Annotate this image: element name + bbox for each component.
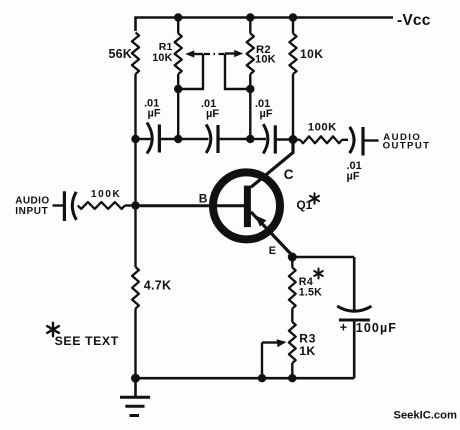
wire R1 bottom lead to RC line — [177, 74, 179, 139]
svg-text:4.7K: 4.7K — [144, 278, 172, 292]
svg-text:10K: 10K — [255, 54, 276, 66]
node RC line at 56K — [131, 135, 139, 143]
svg-text:SeekIC.com: SeekIC.com — [394, 410, 457, 422]
wire R1 wiper to bottom terminal — [178, 54, 203, 89]
potentiometer R3 1K body — [289, 322, 296, 363]
node R3 bottom on ground rail — [288, 374, 296, 382]
capacitor input coupling — [53, 191, 77, 221]
svg-text:56K: 56K — [109, 47, 133, 61]
wire R2 bottom lead to RC line — [249, 74, 251, 139]
resistor 100K output — [293, 136, 348, 143]
node R3 wiper on ground rail — [258, 374, 266, 382]
label AUDIO OUTPUT — [383, 132, 431, 152]
svg-text:µF: µF — [260, 108, 273, 120]
svg-text:µF: µF — [148, 108, 161, 120]
wire 4.7K to ground rail — [134, 309, 136, 379]
wire input junction down to 4.7K — [134, 206, 136, 268]
node RC line at R1 — [174, 135, 182, 143]
wire 10K top lead — [292, 18, 294, 34]
svg-text:B: B — [199, 192, 208, 206]
capacitor .01uF third phase-shift cap — [250, 124, 293, 153]
capacitor .01uF first phase-shift cap — [136, 123, 179, 154]
resistor 4.7K — [132, 267, 139, 309]
node input junction — [131, 201, 139, 209]
label .01uF first cap — [144, 98, 161, 120]
R1 wiper arrow — [185, 50, 203, 57]
wire emitter node down to R4 — [291, 257, 293, 268]
node emitter junction — [288, 253, 297, 262]
transistor Q1 circle — [213, 172, 280, 239]
R3 wiper arrow — [262, 339, 287, 347]
svg-text:OUTPUT: OUTPUT — [383, 140, 431, 151]
svg-text:-Vcc: -Vcc — [397, 12, 431, 29]
svg-text:SEE TEXT: SEE TEXT — [55, 334, 119, 348]
svg-text:µF: µF — [347, 171, 360, 183]
capacitor 100uF electrolytic — [337, 306, 371, 378]
svg-text:100µF: 100µF — [356, 321, 397, 335]
wire R1 top lead — [177, 18, 179, 34]
node R1 top on rail — [174, 13, 182, 21]
wire bottom ground rail — [136, 377, 355, 380]
wire 10K bottom lead to collector node — [292, 74, 294, 139]
wire R2 wiper to bottom terminal — [225, 54, 250, 90]
transistor Q1 collector lead — [251, 141, 293, 187]
node RC line at R2 — [246, 135, 254, 143]
svg-text:100K: 100K — [308, 121, 337, 133]
asterisk see-text note — [52, 323, 54, 337]
svg-text:10K: 10K — [300, 47, 324, 61]
node R2 top on rail — [246, 13, 254, 21]
transistor Q1 emitter arrow (PNP) — [256, 216, 267, 227]
label AUDIO INPUT — [15, 196, 49, 217]
wire R3 bottom to ground rail — [291, 363, 293, 378]
wire R2 top lead — [249, 18, 251, 34]
label .01uF output cap — [347, 160, 362, 183]
wire left branch RC line to input junction — [134, 139, 136, 206]
wire top supply rail — [136, 18, 394, 32]
svg-text:E: E — [269, 245, 276, 257]
svg-text:1K: 1K — [299, 344, 315, 358]
asterisk for R4 — [318, 269, 320, 279]
capacitor .01uF output coupling — [350, 127, 379, 156]
potentiometer R1 10K body — [175, 34, 182, 75]
wire bypass branch down to 100uF — [353, 257, 356, 313]
label .01uF third cap — [255, 98, 273, 120]
wire 56K bottom to RC line — [134, 74, 136, 139]
node R1 wiper junction — [174, 85, 182, 93]
svg-text:10K: 10K — [152, 52, 172, 64]
svg-text:+: + — [340, 320, 347, 334]
asterisk for Q1 — [314, 193, 316, 203]
wire R4 to R3 — [291, 309, 293, 323]
svg-text:C: C — [284, 167, 294, 182]
node R2 wiper junction — [246, 85, 254, 93]
wire base lead — [136, 204, 248, 207]
resistor 56K — [132, 33, 139, 75]
svg-text:100K: 100K — [91, 189, 121, 200]
node ground at left branch — [131, 374, 140, 383]
node RC line at collector — [289, 135, 298, 144]
resistor 100K input — [78, 202, 136, 209]
capacitor .01uF second phase-shift cap — [178, 125, 250, 154]
ganged link dashed line between R1 and R2 wipers — [204, 53, 224, 55]
svg-text:INPUT: INPUT — [15, 206, 48, 217]
R2 wiper arrow — [225, 50, 243, 57]
wire emitter node to bypass branch — [292, 256, 354, 259]
label .01uF second cap — [201, 98, 219, 120]
svg-text:1.5K: 1.5K — [299, 286, 322, 298]
resistor R4 1.5K body — [289, 268, 296, 309]
svg-text:µF: µF — [206, 108, 219, 120]
resistor 10K collector load — [289, 34, 296, 75]
wire R3 wiper return to ground rail — [261, 343, 263, 379]
transistor Q1 emitter lead — [251, 212, 292, 256]
transistor Q1 base bar — [244, 186, 251, 228]
node 10K top on rail — [289, 13, 297, 21]
ground symbol — [120, 378, 150, 415]
potentiometer R2 10K body — [247, 34, 254, 75]
